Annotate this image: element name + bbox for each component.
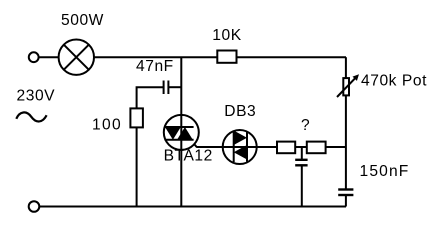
svg-text:150nF: 150nF xyxy=(360,163,410,180)
svg-text:BTA12: BTA12 xyxy=(164,148,213,165)
svg-text:500W: 500W xyxy=(61,12,104,29)
svg-text:230V: 230V xyxy=(17,87,56,104)
svg-text:100: 100 xyxy=(92,117,122,134)
svg-text:47nF: 47nF xyxy=(136,58,174,75)
svg-text:?: ? xyxy=(301,117,310,134)
svg-text:10K: 10K xyxy=(212,27,241,44)
svg-text:DB3: DB3 xyxy=(224,103,256,120)
svg-text:470k Pot: 470k Pot xyxy=(361,73,427,90)
